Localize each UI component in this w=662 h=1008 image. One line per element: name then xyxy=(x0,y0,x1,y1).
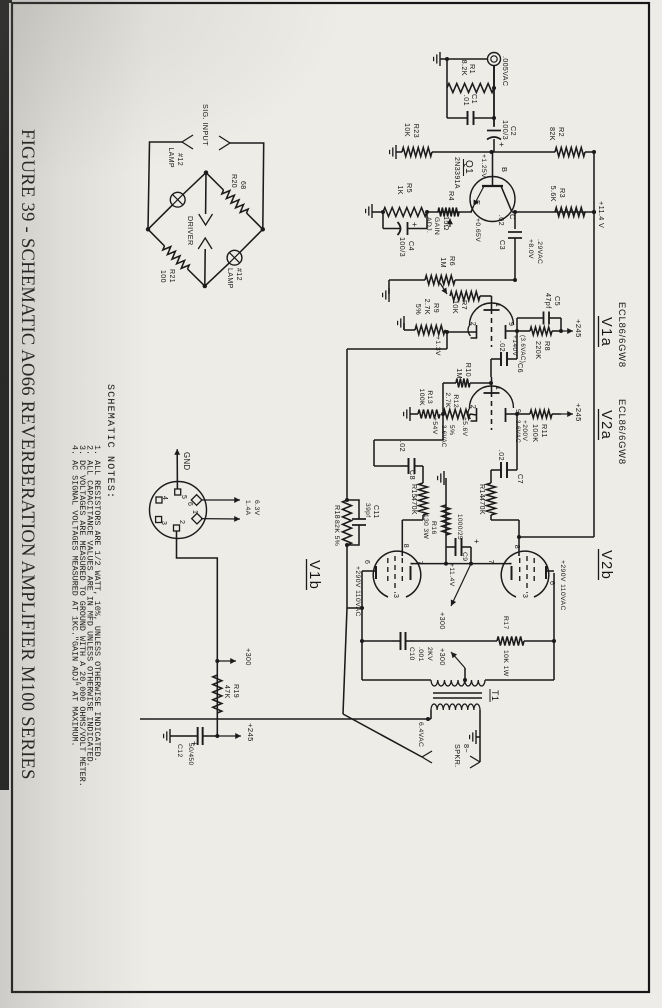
svg-text:C5: C5 xyxy=(553,296,562,306)
svg-text:+300: +300 xyxy=(244,648,253,666)
svg-text:10K: 10K xyxy=(403,123,412,137)
svg-text:1000/25: 1000/25 xyxy=(456,514,463,540)
svg-text:ECL86/6GW8: ECL86/6GW8 xyxy=(617,399,628,465)
svg-text:470K: 470K xyxy=(410,497,417,515)
svg-text:R4: R4 xyxy=(447,191,456,201)
svg-text:5.6K: 5.6K xyxy=(549,186,558,202)
svg-text:100/3: 100/3 xyxy=(398,237,407,257)
svg-text:C10: C10 xyxy=(408,647,415,661)
svg-text:6.4VAC: 6.4VAC xyxy=(417,722,424,747)
svg-text:82K: 82K xyxy=(548,127,557,141)
svg-text:R3: R3 xyxy=(558,188,567,198)
svg-text:1K: 1K xyxy=(396,185,405,195)
svg-text:+200V: +200V xyxy=(521,420,528,441)
svg-text:100: 100 xyxy=(159,270,166,283)
svg-text:#12: #12 xyxy=(235,268,242,281)
svg-text:.02: .02 xyxy=(497,450,506,461)
svg-text:10K: 10K xyxy=(451,300,460,314)
svg-text:47K: 47K xyxy=(223,685,230,699)
svg-text:4. AC SIGNAL VOLTAGES MEASURED: 4. AC SIGNAL VOLTAGES MEASURED AT 1KC."G… xyxy=(70,445,80,747)
svg-text:R9: R9 xyxy=(432,303,441,313)
svg-text:+0.65V: +0.65V xyxy=(474,218,481,242)
svg-text:V1b: V1b xyxy=(306,560,322,590)
svg-text:R11: R11 xyxy=(540,424,549,438)
svg-text:+290V 110VAC: +290V 110VAC xyxy=(559,560,566,611)
svg-text:C11: C11 xyxy=(372,505,379,519)
svg-text:DRIVER: DRIVER xyxy=(186,216,195,246)
svg-text:100/3: 100/3 xyxy=(501,120,510,140)
svg-text:5%: 5% xyxy=(414,304,423,315)
svg-text:+245: +245 xyxy=(246,723,255,742)
svg-text:R6: R6 xyxy=(448,256,457,266)
svg-text:1: 1 xyxy=(494,386,501,390)
svg-text:+1.3V: +1.3V xyxy=(434,336,441,356)
svg-text:FIGURE 39 - SCHEMATIC AO66 RE: FIGURE 39 - SCHEMATIC AO66 REVERBERATION… xyxy=(17,129,37,780)
svg-text:1M: 1M xyxy=(455,368,464,379)
svg-text:C6: C6 xyxy=(516,363,525,373)
svg-text:SPKR.: SPKR. xyxy=(453,744,462,768)
svg-text:+300: +300 xyxy=(438,612,447,630)
svg-text:130 3W: 130 3W xyxy=(422,514,429,540)
svg-text:.02: .02 xyxy=(398,441,407,452)
svg-text:.01: .01 xyxy=(462,95,471,106)
svg-text:+300: +300 xyxy=(438,648,447,666)
svg-text:100K: 100K xyxy=(531,424,540,442)
svg-text:C1: C1 xyxy=(470,94,479,104)
svg-text:8: 8 xyxy=(402,544,409,548)
svg-text:R13: R13 xyxy=(426,390,433,404)
svg-text:3: 3 xyxy=(160,521,167,525)
svg-text:R8: R8 xyxy=(543,341,552,351)
svg-text:+5.6V: +5.6V xyxy=(461,417,468,437)
svg-text:2: 2 xyxy=(178,520,185,524)
svg-text:R16: R16 xyxy=(430,521,437,535)
svg-text:.001: .001 xyxy=(417,647,424,662)
svg-text:50/450: 50/450 xyxy=(187,743,194,766)
svg-text:470K: 470K xyxy=(478,497,485,515)
svg-text:8: 8 xyxy=(513,545,520,549)
svg-text:1: 1 xyxy=(494,303,501,307)
svg-text:2: 2 xyxy=(469,322,476,326)
svg-text:68: 68 xyxy=(239,181,246,190)
svg-text:3: 3 xyxy=(392,594,399,598)
svg-text:C12: C12 xyxy=(176,744,183,758)
svg-text:6: 6 xyxy=(363,560,370,564)
svg-text:+11.4V: +11.4V xyxy=(448,563,455,587)
svg-text:+11.4 V: +11.4 V xyxy=(597,201,606,228)
svg-text:E: E xyxy=(473,200,482,205)
svg-text:39pf: 39pf xyxy=(364,503,371,517)
svg-text:SIG. INPUT: SIG. INPUT xyxy=(201,104,210,146)
svg-text:8.2K: 8.2K xyxy=(460,60,469,76)
svg-text:GAIN: GAIN xyxy=(433,217,440,235)
svg-text:R10: R10 xyxy=(464,363,473,377)
svg-text:82K 5%: 82K 5% xyxy=(333,520,340,546)
svg-text:220K: 220K xyxy=(534,341,543,359)
svg-text:2KV: 2KV xyxy=(426,647,433,661)
svg-text:R21: R21 xyxy=(168,269,175,283)
svg-text:8~: 8~ xyxy=(462,744,471,753)
svg-text:R14: R14 xyxy=(478,484,485,498)
svg-text:C2: C2 xyxy=(509,126,518,136)
svg-text:LAMP: LAMP xyxy=(167,147,174,168)
svg-text:+1.25V: +1.25V xyxy=(480,154,487,178)
svg-text:+8.0V: +8.0V xyxy=(527,239,534,259)
svg-text:R7: R7 xyxy=(460,300,469,310)
svg-text:+: + xyxy=(410,222,420,227)
svg-text:R19: R19 xyxy=(232,684,239,698)
svg-text:R5: R5 xyxy=(405,183,414,193)
svg-text:C8: C8 xyxy=(408,470,417,480)
svg-text:T1: T1 xyxy=(490,690,500,701)
svg-text:5%: 5% xyxy=(448,425,455,435)
svg-text:R12: R12 xyxy=(452,394,459,408)
svg-text:6: 6 xyxy=(186,502,193,506)
svg-text:2.7K: 2.7K xyxy=(423,299,432,315)
svg-text:3: 3 xyxy=(521,594,528,598)
svg-text:6.3V: 6.3V xyxy=(253,500,260,516)
svg-text:C7: C7 xyxy=(516,474,525,484)
svg-text:ADJ.: ADJ. xyxy=(425,217,432,233)
svg-text:2N3391A: 2N3391A xyxy=(453,157,460,189)
svg-text:9: 9 xyxy=(507,322,514,326)
svg-text:B: B xyxy=(500,167,509,172)
svg-text:C4: C4 xyxy=(407,241,416,251)
svg-text:+: + xyxy=(472,539,481,544)
svg-text:R23: R23 xyxy=(412,124,421,138)
svg-text:100K: 100K xyxy=(418,389,425,407)
svg-text:10K 1W: 10K 1W xyxy=(502,650,509,677)
svg-text:V2a: V2a xyxy=(598,410,614,440)
svg-text:R20: R20 xyxy=(230,174,237,188)
svg-text:R1: R1 xyxy=(468,64,477,74)
svg-text:ECL86/6GW8: ECL86/6GW8 xyxy=(617,302,628,368)
svg-text:(3.6VAC): (3.6VAC) xyxy=(519,335,526,363)
svg-text:R2: R2 xyxy=(557,127,566,137)
svg-text:4: 4 xyxy=(161,496,168,500)
svg-text:Q1: Q1 xyxy=(463,160,474,174)
svg-text:R17: R17 xyxy=(502,616,509,630)
svg-text:#12: #12 xyxy=(176,153,183,166)
svg-text:C9: C9 xyxy=(461,552,468,562)
svg-text:R15: R15 xyxy=(410,484,417,498)
svg-text:+245: +245 xyxy=(574,319,583,338)
svg-text:LAMP: LAMP xyxy=(226,268,233,289)
svg-text:.02: .02 xyxy=(497,215,506,226)
svg-text:2: 2 xyxy=(469,405,476,409)
svg-text:V2b: V2b xyxy=(598,550,614,580)
svg-text:2.7K: 2.7K xyxy=(444,392,451,408)
svg-text:+54V: +54V xyxy=(431,417,438,435)
svg-text:5: 5 xyxy=(180,495,187,499)
svg-text:1.4A: 1.4A xyxy=(244,500,251,516)
svg-text:GND: GND xyxy=(182,452,191,471)
svg-text:C3: C3 xyxy=(498,240,507,250)
svg-text:.005VAC: .005VAC xyxy=(501,56,508,86)
svg-text:V1a: V1a xyxy=(598,317,614,347)
svg-text:SCHEMATIC NOTES:: SCHEMATIC NOTES: xyxy=(104,384,115,499)
svg-text:+245: +245 xyxy=(574,403,583,422)
svg-text:47pf: 47pf xyxy=(544,293,553,309)
svg-text:.29VAC: .29VAC xyxy=(536,239,543,264)
svg-text:.02: .02 xyxy=(498,341,507,352)
svg-text:+290V 110VAC: +290V 110VAC xyxy=(354,566,361,617)
svg-text:+: + xyxy=(497,142,507,147)
svg-text:1: 1 xyxy=(191,510,198,514)
svg-text:1M: 1M xyxy=(439,257,448,268)
svg-text:R18: R18 xyxy=(333,505,340,519)
